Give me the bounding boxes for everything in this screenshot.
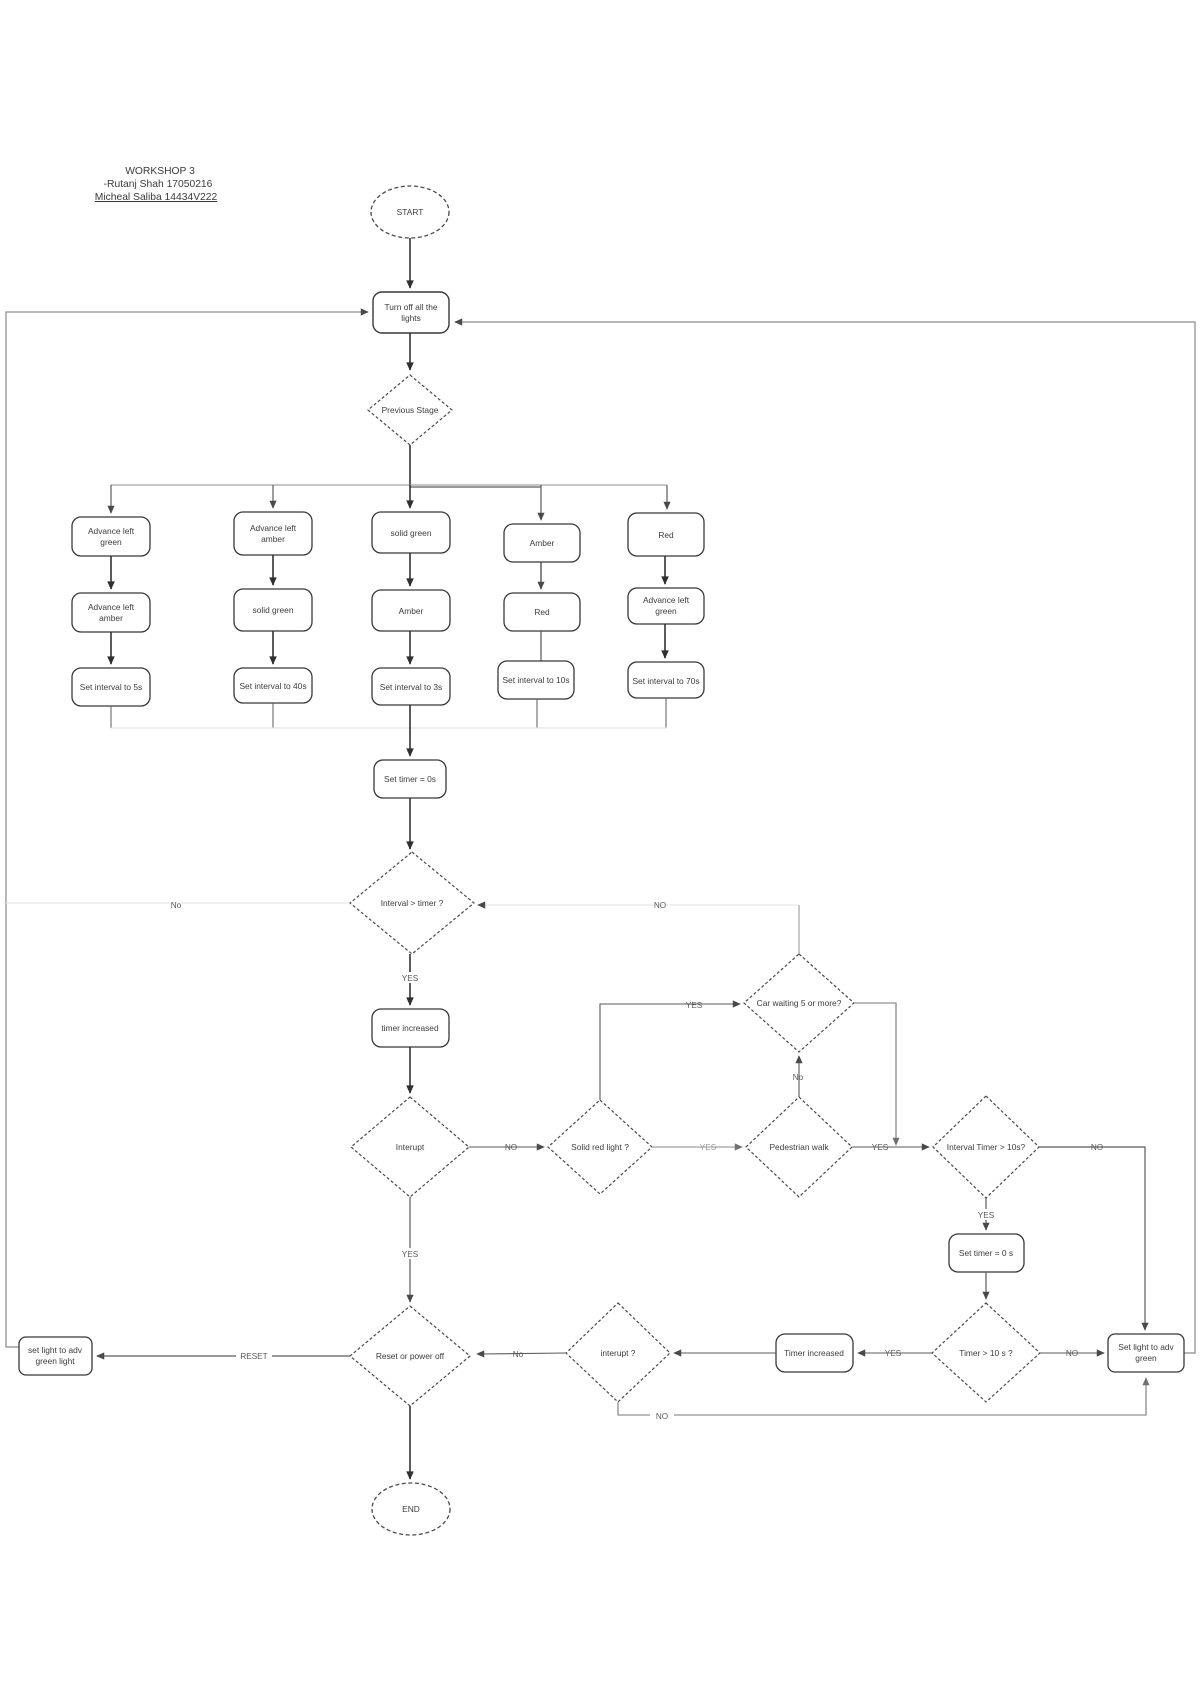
wire col2 B-C	[272, 631, 274, 664]
process Set timer = 0 s (right)	[949, 1234, 1024, 1272]
svg-text:No: No	[171, 901, 182, 910]
wire col4 stub	[536, 699, 538, 728]
wire Car waiting right down join	[854, 1003, 896, 1145]
process col2 solid green	[234, 589, 312, 631]
wire col5 stub	[665, 698, 667, 728]
start ellipse START	[371, 186, 449, 238]
wire left feedback loop: set-light-to-adv-green-light box to Turn off all the lights	[6, 312, 368, 1347]
svg-text:WORKSHOP 3: WORKSHOP 3	[125, 166, 195, 177]
wire drop to col5	[666, 485, 668, 509]
decision interupt ? (lower)	[566, 1303, 670, 1402]
svg-text:NO: NO	[1066, 1349, 1078, 1358]
svg-text:timer increased: timer increased	[381, 1023, 439, 1033]
process col3 solid green	[372, 512, 450, 553]
svg-text:YES: YES	[700, 1143, 717, 1152]
svg-text:NO: NO	[656, 1412, 668, 1421]
svg-text:Red: Red	[534, 607, 550, 617]
process col3 Set interval to 3s	[372, 668, 450, 705]
process col3 Amber	[372, 590, 450, 631]
process Timer increased	[776, 1334, 853, 1372]
process col4 Amber	[504, 524, 580, 562]
process col4 Red	[504, 593, 580, 631]
wire merge bar faint	[111, 727, 667, 729]
process col5 Set interval to 70s	[628, 662, 704, 698]
svg-text:YES: YES	[402, 1250, 419, 1259]
svg-text:NO: NO	[654, 901, 666, 910]
svg-text:-Rutanj Shah 17050216: -Rutanj Shah 17050216	[104, 179, 213, 190]
wire Interval Timer YES down	[974, 1198, 998, 1230]
process col1 Set interval to 5s	[72, 668, 150, 706]
wire START to Turn off all the lights	[409, 238, 411, 288]
decision Solid red light?	[548, 1100, 652, 1194]
svg-text:amber: amber	[99, 613, 123, 623]
wire Reset RESET left to set light box	[97, 1350, 350, 1361]
svg-text:Set interval to 5s: Set interval to 5s	[80, 682, 142, 692]
title text block	[95, 166, 218, 203]
wire col2 A-B	[272, 555, 274, 585]
svg-text:Set interval to 10s: Set interval to 10s	[502, 675, 569, 685]
end ellipse END	[372, 1483, 450, 1535]
svg-text:NO: NO	[1091, 1143, 1103, 1152]
decision Interval Timer > 10s?	[933, 1096, 1039, 1198]
process Set light to adv green (right)	[1108, 1334, 1184, 1372]
wire Timer increased left to interupt2	[674, 1352, 776, 1354]
svg-text:Set light to adv: Set light to adv	[1118, 1342, 1174, 1352]
wire interupt2 No left to Reset	[477, 1350, 566, 1359]
process col1 Advance left green	[72, 517, 150, 556]
wire timer increased to Interupt	[409, 1047, 411, 1093]
wire right feedback loop: Set light to adv green box to Turn off all the lights	[455, 322, 1195, 1353]
wire Timer>10s NO right to Set light box	[1040, 1349, 1104, 1358]
wire interupt2 NO down right up into Set light box bottom	[618, 1378, 1146, 1421]
svg-text:Advance left: Advance left	[250, 523, 297, 533]
wire Timer>10s YES left to Timer increased	[858, 1349, 932, 1358]
wire Solid red YES up to Car waiting	[600, 1001, 740, 1100]
svg-text:Interval > timer ?: Interval > timer ?	[381, 898, 444, 908]
wire drop to col3	[409, 485, 411, 508]
svg-text:Advance left: Advance left	[88, 602, 135, 612]
process col5 Red	[628, 513, 704, 556]
wire Pedestrian YES right to Interval Timer	[852, 1143, 929, 1152]
wire col1 B-C	[110, 632, 112, 664]
wire Interupt YES down to Reset	[398, 1197, 422, 1302]
svg-text:END: END	[402, 1504, 420, 1514]
svg-text:Micheal Saliba 14434V222: Micheal Saliba 14434V222	[95, 192, 218, 203]
svg-text:Solid red light ?: Solid red light ?	[571, 1142, 629, 1152]
process col2 Set interval to 40s	[234, 668, 312, 703]
svg-text:set light to adv: set light to adv	[28, 1345, 83, 1355]
wire Interval Timer NO right down into Set light box top	[1039, 1143, 1145, 1330]
decision Reset or power off	[350, 1306, 470, 1406]
decision Pedestrian walk	[746, 1097, 852, 1197]
svg-text:solid green: solid green	[253, 605, 294, 615]
svg-text:Set interval to 70s: Set interval to 70s	[632, 676, 699, 686]
svg-text:Turn off all the: Turn off all the	[384, 302, 437, 312]
wire col4 B-C	[540, 631, 542, 661]
svg-text:amber: amber	[261, 534, 285, 544]
wire col1 A-B	[110, 556, 112, 589]
wire car-waiting NO loop back to Interval > timer	[478, 901, 799, 954]
svg-text:lights: lights	[401, 313, 421, 323]
wire col2 stub	[272, 703, 274, 728]
wire Set timer right to Timer > 10 s	[985, 1272, 987, 1299]
process set light to adv green light (left)	[19, 1337, 92, 1375]
svg-text:solid green: solid green	[391, 528, 432, 538]
svg-text:Previous Stage: Previous Stage	[382, 405, 439, 415]
wire col5 B-C	[664, 624, 666, 658]
svg-text:No: No	[793, 1073, 804, 1082]
svg-text:Set timer = 0s: Set timer = 0s	[384, 774, 436, 784]
process Set timer = 0s	[374, 760, 446, 798]
decision Interupt	[351, 1097, 469, 1197]
svg-text:green: green	[1135, 1353, 1157, 1363]
process timer increased	[372, 1009, 449, 1047]
process col2 Advance left amber	[234, 512, 312, 555]
decision Car waiting 5 or more?	[744, 954, 854, 1052]
svg-text:green: green	[100, 537, 122, 547]
svg-text:Amber: Amber	[399, 606, 424, 616]
wire col1 stub	[110, 706, 112, 728]
svg-text:Interupt: Interupt	[396, 1142, 425, 1152]
svg-text:Reset or power off: Reset or power off	[376, 1351, 445, 1361]
wire col4 A-B	[540, 562, 542, 589]
svg-text:START: START	[397, 207, 424, 217]
svg-text:YES: YES	[686, 1001, 703, 1010]
wire Pedestrian No up to Car waiting	[793, 1056, 804, 1097]
wire Set timer to Interval > timer	[409, 798, 411, 849]
svg-text:Timer > 10 s ?: Timer > 10 s ?	[959, 1348, 1013, 1358]
svg-text:YES: YES	[885, 1349, 902, 1358]
svg-text:Set interval to 3s: Set interval to 3s	[380, 682, 442, 692]
svg-text:Interval Timer > 10s?: Interval Timer > 10s?	[947, 1142, 1026, 1152]
wire Previous Stage to split bar	[409, 445, 411, 486]
decision Timer > 10 s ?	[932, 1303, 1040, 1402]
svg-text:YES: YES	[872, 1143, 889, 1152]
svg-text:green light: green light	[35, 1356, 75, 1366]
svg-text:interupt ?: interupt ?	[601, 1348, 636, 1358]
svg-text:No: No	[513, 1350, 524, 1359]
svg-text:Car waiting 5 or more?: Car waiting 5 or more?	[757, 998, 842, 1008]
wire Interupt NO to Solid red light	[469, 1143, 544, 1152]
wire col3 down to Set timer	[409, 705, 411, 756]
wire Interval>timer No left long	[6, 901, 350, 910]
wire col3 B-C	[409, 631, 411, 664]
svg-text:YES: YES	[978, 1211, 995, 1220]
wire col3 A-B	[409, 553, 411, 586]
wire drop to col2	[272, 485, 274, 508]
wire Interval>timer YES down	[398, 954, 422, 1005]
svg-text:Pedestrian walk: Pedestrian walk	[769, 1142, 829, 1152]
svg-text:NO: NO	[505, 1143, 517, 1152]
process col1 Advance left amber	[72, 593, 150, 632]
process col4 Set interval to 10s	[498, 661, 574, 699]
svg-text:Amber: Amber	[530, 538, 555, 548]
wire Solid red right to Pedestrian walk	[652, 1143, 742, 1152]
process col5 Advance left green	[628, 588, 704, 624]
wire Reset down to END	[409, 1406, 411, 1479]
wire split bar horizontal	[111, 485, 667, 487]
svg-text:Advance left: Advance left	[643, 595, 690, 605]
svg-text:green: green	[655, 606, 677, 616]
svg-text:RESET: RESET	[240, 1352, 267, 1361]
wire col5 A-B	[664, 556, 666, 584]
svg-text:Set interval to 40s: Set interval to 40s	[239, 681, 306, 691]
svg-text:Red: Red	[658, 530, 674, 540]
svg-text:Timer increased: Timer increased	[784, 1348, 844, 1358]
process Turn off all the lights	[373, 292, 449, 333]
svg-text:Set timer = 0 s: Set timer = 0 s	[959, 1248, 1013, 1258]
svg-text:Advance left: Advance left	[88, 526, 135, 536]
decision Previous Stage	[368, 375, 452, 445]
wire drop to col1	[110, 485, 112, 513]
decision Interval > timer?	[350, 852, 474, 954]
wire Turn off lights to Previous Stage	[409, 333, 411, 370]
svg-text:YES: YES	[402, 974, 419, 983]
wire drop to col4	[540, 485, 542, 520]
